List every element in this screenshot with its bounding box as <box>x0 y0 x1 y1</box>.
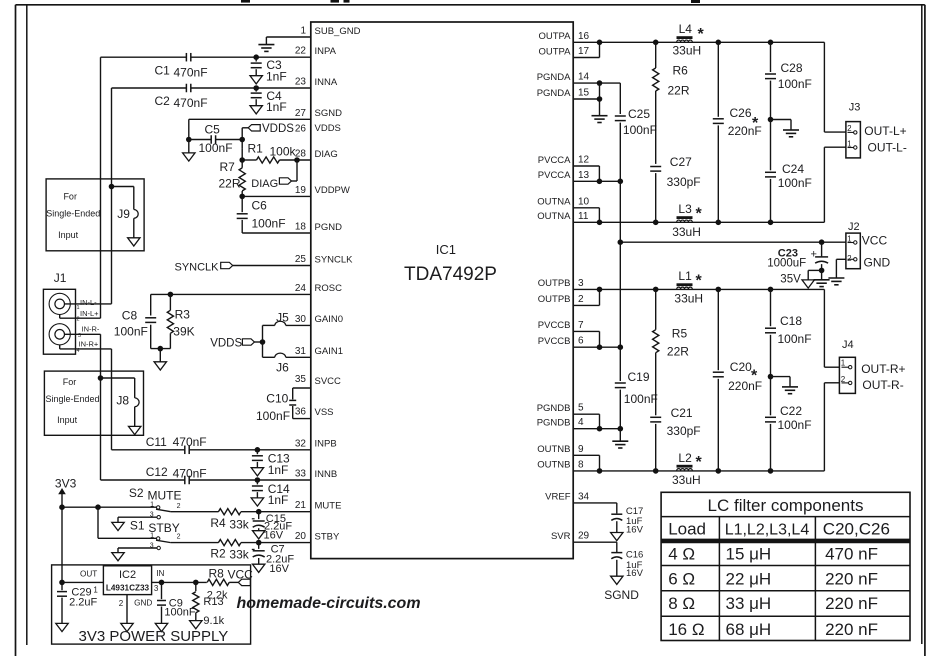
node C5 left junction <box>186 137 192 143</box>
svg-text:*: * <box>696 206 703 223</box>
svg-text:OUTPB: OUTPB <box>538 294 571 305</box>
node R1 right junction <box>294 157 300 163</box>
node C24 bottom <box>768 220 774 226</box>
svg-text:33uH: 33uH <box>674 291 703 305</box>
capacitor C1 <box>186 53 190 62</box>
wire SYNCLK <box>233 265 311 267</box>
svg-text:4: 4 <box>77 348 80 354</box>
node PGNDB junction <box>597 426 603 432</box>
wire OUT-L+ drop <box>824 42 846 132</box>
node R13 junction <box>193 580 199 586</box>
svg-text:100nF: 100nF <box>778 176 812 190</box>
svg-text:J1: J1 <box>54 271 67 285</box>
svg-text:OUTNA: OUTNA <box>537 197 571 208</box>
svg-text:36: 36 <box>295 407 307 418</box>
node OUTPB junction <box>597 287 603 293</box>
svg-text:100nF: 100nF <box>114 324 148 338</box>
svg-text:220 nF: 220 nF <box>825 569 878 588</box>
ground at R13 <box>190 621 202 629</box>
pin 17 OUTPA labels <box>538 46 589 57</box>
R2 labels <box>210 546 249 561</box>
wire INNB net <box>101 334 311 480</box>
node INNB junction <box>255 477 261 483</box>
wire IN-L+ from shield <box>60 315 101 319</box>
resistor R5 <box>653 289 659 415</box>
pin 36 VSS labels <box>295 407 334 418</box>
inductor L4 <box>677 38 693 42</box>
node C23 ground junction <box>819 268 825 274</box>
OUT-R- label <box>862 378 903 392</box>
svg-text:2: 2 <box>847 254 852 263</box>
svg-text:100k: 100k <box>270 145 297 159</box>
L3 labels <box>672 202 702 239</box>
node C7 junction <box>256 540 262 546</box>
node PGNDA junction <box>597 80 603 86</box>
svg-text:100nF: 100nF <box>778 77 812 91</box>
svg-text:2.2k: 2.2k <box>207 590 228 602</box>
table title <box>708 496 864 515</box>
R5 labels <box>667 326 689 358</box>
node OUT junction <box>59 580 65 586</box>
node VCC rail tee <box>618 239 624 245</box>
node OUTPA junction <box>597 40 603 46</box>
pin 9 OUTNB labels <box>537 444 584 455</box>
C1 labels <box>155 64 208 80</box>
resistor R3 <box>167 294 173 348</box>
pin 33 INNB labels <box>295 469 337 480</box>
C24 labels <box>778 162 812 190</box>
resistor R7 <box>239 149 245 197</box>
svg-text:15 μH: 15 μH <box>726 544 772 563</box>
svg-text:35V: 35V <box>780 274 801 286</box>
C16 labels <box>626 550 644 580</box>
J8 label <box>116 393 129 407</box>
pin 24 ROSC labels <box>295 283 342 294</box>
svg-text:GAIN0: GAIN0 <box>315 314 344 325</box>
ground at S2 <box>112 522 124 530</box>
svg-text:470nF: 470nF <box>173 466 207 480</box>
svg-text:IN-L+: IN-L+ <box>80 309 99 318</box>
node C19 top <box>618 344 624 350</box>
OUT-L- label <box>868 141 907 155</box>
svg-text:C24: C24 <box>782 162 804 176</box>
wire PVCCB pin6 <box>573 346 620 348</box>
wire OUT-R+ drop <box>824 289 839 367</box>
svg-text:R2: R2 <box>210 546 226 560</box>
svg-text:16: 16 <box>578 31 590 42</box>
svg-text:*: * <box>696 454 703 471</box>
svg-text:21: 21 <box>295 500 307 511</box>
svg-text:C5: C5 <box>205 123 221 137</box>
svg-text:34: 34 <box>578 491 590 502</box>
node C15 junction <box>256 509 262 515</box>
wire OUTPA net <box>573 41 824 43</box>
svg-text:SYNCLK: SYNCLK <box>175 262 220 274</box>
pin 34 VREF labels <box>545 491 589 502</box>
svg-text:7: 7 <box>578 320 584 331</box>
svg-text:470nF: 470nF <box>173 435 207 449</box>
svg-text:GAIN1: GAIN1 <box>315 346 344 357</box>
svg-text:17: 17 <box>578 46 590 57</box>
svg-text:220 nF: 220 nF <box>825 620 878 639</box>
jumper J6 <box>263 353 311 357</box>
wire S1 feed <box>98 507 157 538</box>
svg-text:33uH: 33uH <box>673 44 702 58</box>
svg-text:R8: R8 <box>209 567 225 581</box>
IC2 GND lead <box>126 595 128 624</box>
C10 labels <box>256 392 290 423</box>
svg-text:20: 20 <box>295 531 307 542</box>
svg-text:J2: J2 <box>848 221 860 233</box>
svg-text:PGNDB: PGNDB <box>537 418 571 429</box>
wire gain vertical <box>262 325 264 357</box>
C7 labels <box>266 544 294 575</box>
svg-text:4 Ω: 4 Ω <box>668 544 695 563</box>
wire ROSC net <box>151 293 311 295</box>
wire PVCCB pin7 <box>573 331 599 347</box>
wire R4 to MUTE pin <box>241 511 311 513</box>
node C18 mid junction <box>768 374 774 380</box>
R7 labels <box>219 160 241 191</box>
svg-text:C6: C6 <box>252 199 268 213</box>
svg-text:VDDS: VDDS <box>210 338 242 350</box>
node VDDS gain junction <box>260 339 266 345</box>
wire OUT-L- drop <box>824 147 846 222</box>
capacitor C12 <box>185 476 189 485</box>
single-ended input box bottom <box>44 371 143 435</box>
svg-text:3: 3 <box>578 278 584 289</box>
IC1 value TDA7492P <box>404 264 497 285</box>
svg-text:SYNCLK: SYNCLK <box>315 254 354 265</box>
table row 8ohm <box>668 594 878 613</box>
C11 labels <box>146 435 207 449</box>
svg-text:25: 25 <box>295 254 307 265</box>
J4 pin1 <box>841 358 852 369</box>
svg-text:68 μH: 68 μH <box>726 620 772 639</box>
svg-text:PVCCA: PVCCA <box>538 170 571 181</box>
J6 label <box>276 361 289 375</box>
pin 19 VDDPW labels <box>295 185 350 196</box>
wire OUTPB pin2 link <box>573 289 599 305</box>
svg-text:22 μH: 22 μH <box>726 569 772 588</box>
pin 3 OUTPB labels <box>538 278 584 289</box>
ground at C16 <box>611 576 623 584</box>
svg-text:R6: R6 <box>673 64 689 78</box>
S2 labels <box>150 502 181 519</box>
svg-text:13: 13 <box>578 170 590 181</box>
connector J2 box <box>846 233 860 269</box>
svg-text:OUTPA: OUTPA <box>538 46 571 57</box>
pin 15 PGNDA labels <box>537 88 590 99</box>
svg-text:L4931CZ33: L4931CZ33 <box>106 583 150 592</box>
capacitor C10 <box>289 388 296 419</box>
L4 labels <box>673 22 705 57</box>
svg-text:32: 32 <box>295 438 307 449</box>
svg-text:PVCCA: PVCCA <box>538 155 571 166</box>
pin 22 INPA labels <box>295 46 337 57</box>
capacitor C25 <box>615 83 626 181</box>
svg-text:22R: 22R <box>219 177 241 191</box>
svg-text:C12: C12 <box>146 465 168 479</box>
capacitor C20 <box>713 289 724 471</box>
connector flag VDDS pin26 <box>242 125 260 131</box>
wire S1 ground throw <box>118 548 157 553</box>
capacitor C13 <box>252 450 263 468</box>
svg-text:1nF: 1nF <box>266 100 287 114</box>
svg-text:6 Ω: 6 Ω <box>668 569 695 588</box>
pin 25 SYNCLK labels <box>295 254 353 265</box>
svg-text:INPA: INPA <box>315 46 337 57</box>
box top texts <box>46 192 100 241</box>
C5 labels <box>199 123 233 155</box>
svg-text:22R: 22R <box>668 84 690 98</box>
svg-text:S2: S2 <box>129 486 144 500</box>
ground (earth) at C18 <box>782 387 798 394</box>
capacitor C26 <box>713 42 724 222</box>
svg-text:23: 23 <box>295 77 307 88</box>
pin 8 OUTNB labels <box>537 459 584 470</box>
svg-text:Single-Ended: Single-Ended <box>46 209 100 219</box>
svg-text:PGND: PGND <box>315 222 343 233</box>
node C26 bottom <box>716 220 722 226</box>
wire VDDS vertical <box>241 128 243 149</box>
svg-text:OUT-L+: OUT-L+ <box>864 124 906 138</box>
svg-text:C20,C26: C20,C26 <box>823 520 890 539</box>
ground at C3 <box>250 76 262 84</box>
svg-text:OUT: OUT <box>80 569 97 578</box>
svg-text:INPB: INPB <box>315 439 337 450</box>
svg-text:C28: C28 <box>781 61 803 75</box>
IC2 labels <box>106 569 150 593</box>
C20 labels <box>728 360 762 393</box>
SYNCLK net label <box>175 262 220 274</box>
node R6 bottom <box>653 220 659 226</box>
pin 13 PVCCA labels <box>538 170 590 181</box>
svg-text:6: 6 <box>578 336 584 347</box>
svg-text:220 nF: 220 nF <box>825 594 878 613</box>
svg-text:330pF: 330pF <box>667 175 701 189</box>
svg-text:J3: J3 <box>849 102 861 114</box>
svg-text:STBY: STBY <box>148 521 179 535</box>
svg-text:L2: L2 <box>678 451 692 465</box>
R6 labels <box>668 64 690 98</box>
wire PGNDB pin4 <box>573 428 620 430</box>
C6 labels <box>252 199 286 231</box>
inductor L3 <box>677 218 693 222</box>
node OUTNB junction <box>597 468 603 474</box>
wire DIAG drop <box>291 160 297 181</box>
svg-text:35: 35 <box>295 374 307 385</box>
svg-text:PVCCB: PVCCB <box>538 336 571 347</box>
svg-text:J4: J4 <box>842 339 854 351</box>
pin 18 PGND labels <box>295 222 342 233</box>
node PVCCB junction <box>597 344 603 350</box>
connector flag DIAG <box>279 178 291 184</box>
ground at C14 <box>251 498 263 506</box>
J3 pin2 <box>847 124 857 134</box>
wire R8 to VCC <box>229 581 238 583</box>
svg-text:C10: C10 <box>266 392 288 406</box>
node J8 tap <box>98 375 104 381</box>
ground (earth) PGNDB <box>612 429 628 448</box>
svg-text:IN-L-: IN-L- <box>80 298 97 307</box>
C26 labels <box>728 106 762 138</box>
svg-text:100nF: 100nF <box>164 607 195 619</box>
connector flag VCC <box>238 579 250 585</box>
node R5 bottom <box>653 468 659 474</box>
svg-text:SUB_GND: SUB_GND <box>315 26 361 37</box>
RCA jack IN-R <box>49 324 70 345</box>
pin 35 SVCC labels <box>295 374 341 387</box>
svg-text:PGNDA: PGNDA <box>537 72 571 83</box>
J3 label <box>849 102 861 114</box>
C15 labels <box>264 513 293 542</box>
svg-text:3: 3 <box>78 333 81 339</box>
pin 5 PGNDB labels <box>537 403 584 414</box>
OUT-R+ label <box>861 362 905 376</box>
svg-text:4: 4 <box>578 417 584 428</box>
L1 labels <box>674 269 703 305</box>
capacitor C16 <box>611 553 622 577</box>
table row 4ohm <box>668 544 878 563</box>
wire PVCCA pin13 <box>573 180 620 182</box>
node C26 top <box>716 40 722 46</box>
wire OUTPB net <box>573 288 824 290</box>
svg-text:OUT-R+: OUT-R+ <box>861 362 905 376</box>
svg-text:33 μH: 33 μH <box>726 594 772 613</box>
3V3 power supply box <box>52 565 251 644</box>
svg-text:100nF: 100nF <box>256 409 290 423</box>
ground at J8 <box>129 426 141 434</box>
node INPB junction <box>255 447 261 453</box>
wire IN-R- from jack <box>65 333 101 335</box>
wire OUT to IC2 <box>62 581 103 583</box>
svg-text:INNA: INNA <box>315 77 338 88</box>
svg-text:2: 2 <box>177 503 181 510</box>
svg-text:LC filter components: LC filter components <box>708 496 864 515</box>
wire PVCCA pin12 <box>573 166 599 181</box>
pin 12 PVCCA labels <box>538 155 590 166</box>
wire OUTNB pin9 <box>573 455 599 471</box>
pin 14 PGNDA labels <box>537 72 590 83</box>
svg-text:29: 29 <box>578 531 590 542</box>
svg-text:16V: 16V <box>264 530 284 542</box>
svg-text:C2: C2 <box>155 94 171 108</box>
svg-text:2: 2 <box>77 317 80 323</box>
ground (earth) at C28 <box>783 130 799 137</box>
connector J1 box <box>43 289 75 354</box>
svg-text:16V: 16V <box>626 524 644 535</box>
svg-text:11: 11 <box>578 211 589 222</box>
wire S2 ground throw <box>118 517 157 522</box>
node C22 bottom <box>768 468 774 474</box>
IC2 pin texts <box>80 569 164 608</box>
wire VCC rail <box>620 241 846 243</box>
wire SVR pin29 <box>573 542 617 552</box>
svg-text:GND: GND <box>864 256 891 270</box>
R8 labels <box>207 567 228 602</box>
svg-text:OUT-L-: OUT-L- <box>868 141 907 155</box>
wire VCC vertical <box>619 181 621 347</box>
C23 labels <box>767 248 806 286</box>
wire PGND pin18 <box>242 232 311 234</box>
capacitor C21 <box>650 417 661 471</box>
svg-text:R4: R4 <box>210 516 226 530</box>
svg-text:IC2: IC2 <box>119 569 136 581</box>
wire VREF pin34 <box>573 503 617 514</box>
ground at C13 <box>251 468 263 476</box>
pin 1 SUB_GND wire <box>266 36 310 38</box>
svg-text:C11: C11 <box>146 435 167 449</box>
svg-text:R7: R7 <box>220 160 236 174</box>
svg-text:J6: J6 <box>276 361 289 375</box>
node C20 bottom <box>716 468 722 474</box>
pin 23 INNA labels <box>295 77 338 88</box>
svg-text:Input: Input <box>58 230 79 240</box>
svg-text:TDA7492P: TDA7492P <box>404 264 497 285</box>
ground (earth) at SUB_GND <box>258 37 274 51</box>
capacitor C22 <box>765 377 776 471</box>
3V3 POWER SUPPLY title <box>79 628 229 645</box>
svg-text:C21: C21 <box>671 406 693 420</box>
svg-text:GND: GND <box>134 599 152 608</box>
svg-text:33: 33 <box>295 469 307 480</box>
J4 label <box>842 339 854 351</box>
OUT-L+ label <box>864 124 906 138</box>
L2 labels <box>672 451 703 487</box>
J9 label <box>117 207 130 221</box>
resistor R4 <box>218 509 241 515</box>
svg-text:100nF: 100nF <box>778 418 812 432</box>
jumper J5 <box>263 321 311 325</box>
svg-text:VCC: VCC <box>862 233 888 247</box>
svg-text:39K: 39K <box>173 324 194 338</box>
regulator IC2 box <box>103 566 151 595</box>
wire C28 gnd stub <box>771 120 792 130</box>
svg-text:1nF: 1nF <box>266 70 287 84</box>
inductor L2 <box>677 466 693 470</box>
node R3 top junction <box>168 292 174 298</box>
RCA jack IN-L <box>49 293 70 314</box>
ground at C9 <box>155 623 167 631</box>
ground at C5 <box>183 140 195 162</box>
svg-text:470nF: 470nF <box>174 66 208 80</box>
C21 labels <box>667 406 701 438</box>
svg-text:100nF: 100nF <box>623 123 657 137</box>
svg-text:1: 1 <box>93 586 98 595</box>
connector flag SYNCLK <box>221 262 233 268</box>
ground triangle at C23 <box>802 280 814 288</box>
svg-text:16V: 16V <box>626 568 644 579</box>
resistor R13 <box>193 582 199 620</box>
wire VSS pin36 <box>293 418 311 420</box>
svg-text:31: 31 <box>295 346 307 357</box>
resistor R6 <box>653 42 659 164</box>
svg-text:1nF: 1nF <box>268 463 289 477</box>
wire R1 row <box>242 159 311 161</box>
svg-text:16V: 16V <box>269 563 289 575</box>
svg-text:10: 10 <box>578 196 590 207</box>
svg-text:33k: 33k <box>229 547 249 561</box>
C12 labels <box>146 465 207 481</box>
wire S1 to R2 <box>171 542 219 544</box>
wire S2 to R4 <box>171 511 219 513</box>
svg-text:33uH: 33uH <box>672 225 701 239</box>
wire SGND net <box>189 119 311 139</box>
S2 name labels <box>129 486 182 502</box>
C17 labels <box>626 506 644 535</box>
homemade-circuits.com watermark <box>237 595 421 612</box>
